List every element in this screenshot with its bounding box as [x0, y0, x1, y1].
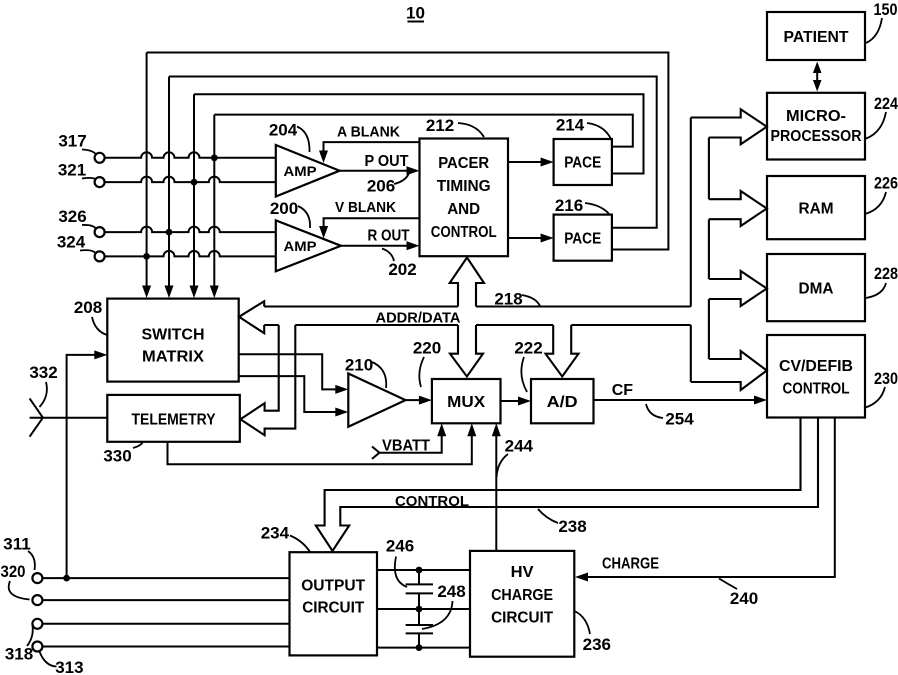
svg-text:150: 150 — [874, 0, 898, 19]
svg-text:321: 321 — [58, 161, 86, 180]
wire CF from A/D to CV/DEFIB control — [594, 382, 768, 405]
svg-text:MATRIX: MATRIX — [142, 349, 204, 366]
wire V BLANK from pacer to amp 200 — [319, 199, 419, 239]
wire pace214 return line upper (to electrode 317 column) — [214, 115, 633, 147]
pacer timing and control box 212 — [420, 139, 509, 257]
label 150 — [866, 0, 898, 43]
svg-text:218: 218 — [494, 290, 522, 309]
bus arrow into DMA — [709, 271, 767, 306]
A/D converter box 222 — [531, 379, 594, 423]
node dot electrode 321 column 3 — [191, 179, 198, 186]
wire HV electrode line 320 — [42, 599, 289, 601]
DMA box 228 — [767, 254, 865, 321]
wire output circuit to HV charge top rail — [377, 569, 470, 571]
svg-text:PACE: PACE — [564, 231, 601, 248]
bus branch arrow into telemetry — [240, 325, 295, 435]
svg-text:MICRO-: MICRO- — [786, 108, 846, 125]
wire pace216 return line upper (to electrode 326 column) — [169, 77, 657, 228]
label 202 — [382, 249, 417, 280]
wire electrode column 3 down to switch matrix — [190, 94, 199, 298]
node dot electrode 326 column 2 — [166, 229, 173, 236]
svg-text:332: 332 — [29, 363, 57, 382]
bus arrow into CV/DEFIB control — [691, 351, 767, 390]
svg-text:TIMING: TIMING — [437, 178, 491, 195]
net label ADDR/DATA — [376, 310, 461, 327]
bus branch arrow down into MUX — [450, 325, 483, 377]
terminal circle 320 — [32, 595, 42, 605]
op-amp sense amplifier 204 — [276, 145, 340, 197]
wire electrode column 4 down to switch matrix — [210, 115, 219, 298]
svg-text:AMP: AMP — [284, 163, 317, 179]
wire A BLANK from pacer to amp 204 — [319, 124, 420, 164]
label 240 — [719, 579, 758, 609]
wire patient-microprocessor double arrow — [813, 62, 822, 92]
label 228 — [866, 264, 898, 298]
svg-text:10: 10 — [406, 4, 425, 23]
wire pacer to pace 216 — [508, 234, 554, 243]
label 326 — [58, 207, 95, 228]
svg-text:200: 200 — [270, 199, 298, 218]
capacitor C248 — [406, 609, 433, 648]
label 317 — [58, 132, 95, 154]
bus right vertical rail inner — [708, 138, 710, 360]
wire R OUT from amp 200 to pacer — [341, 228, 420, 251]
node dot capacitor bottom — [416, 644, 423, 651]
label 208 — [74, 298, 107, 335]
pace box 216 — [554, 215, 612, 261]
bus ADDR/DATA top rail — [264, 305, 691, 307]
svg-text:206: 206 — [367, 177, 395, 196]
svg-text:222: 222 — [514, 339, 542, 358]
terminal circle 317 — [95, 153, 105, 163]
wire MUX to A/D — [501, 397, 532, 406]
wire electrode line 326 with hops — [105, 227, 276, 233]
net label CONTROL — [395, 493, 469, 510]
label 311 — [3, 535, 35, 571]
svg-text:236: 236 — [583, 635, 611, 654]
switch matrix box 208 — [107, 299, 238, 382]
svg-text:RAM: RAM — [799, 201, 834, 218]
wire amp 210 to MUX — [406, 396, 432, 405]
label 330 — [103, 442, 143, 466]
wire output circuit to HV charge middle rail — [377, 608, 470, 610]
label 212 — [426, 116, 484, 137]
node dot electrode 317 column 4 — [211, 154, 218, 161]
HV charge circuit box 236 — [470, 551, 574, 657]
label 200 — [270, 199, 310, 228]
label 204 — [269, 121, 310, 153]
svg-text:208: 208 — [74, 298, 102, 317]
svg-text:214: 214 — [556, 116, 585, 135]
label 236 — [575, 611, 611, 654]
svg-text:PROCESSOR: PROCESSOR — [771, 128, 862, 145]
svg-text:230: 230 — [874, 369, 898, 388]
svg-text:330: 330 — [103, 447, 131, 466]
terminal circle 324 — [95, 251, 105, 261]
wire electrode line 317 with hops — [105, 152, 276, 158]
svg-text:202: 202 — [388, 260, 416, 279]
bus ADDR/DATA arrowhead into switch matrix — [239, 301, 264, 333]
svg-text:OUTPUT: OUTPUT — [301, 578, 365, 595]
svg-text:A/D: A/D — [547, 394, 578, 411]
svg-text:AMP: AMP — [284, 238, 317, 254]
svg-text:CONTROL: CONTROL — [431, 224, 497, 241]
pace box 214 — [554, 139, 612, 185]
svg-text:226: 226 — [874, 174, 898, 193]
svg-text:240: 240 — [730, 589, 758, 608]
svg-text:R OUT: R OUT — [368, 228, 410, 245]
svg-text:313: 313 — [55, 658, 83, 675]
wire electrode column 1 down to switch matrix — [142, 53, 151, 299]
label 332 — [29, 363, 57, 407]
label 321 — [58, 161, 96, 180]
terminal circle 321 — [95, 177, 105, 187]
svg-text:CF: CF — [612, 382, 634, 399]
wire telemetry to MUX — [168, 423, 477, 464]
label 234 — [261, 524, 310, 553]
svg-text:248: 248 — [437, 582, 465, 601]
svg-text:PACER: PACER — [438, 155, 489, 172]
svg-text:PATIENT: PATIENT — [784, 29, 849, 46]
label 230 — [864, 369, 898, 408]
label 244 — [497, 437, 534, 478]
label 218 — [494, 290, 540, 309]
terminal circle 326 — [95, 227, 105, 237]
terminal circle 311 — [32, 573, 42, 583]
node dot capacitor middle — [416, 606, 423, 613]
patient box 150 — [767, 12, 865, 60]
bus branch arrow down into A/D — [546, 325, 579, 377]
svg-text:AND: AND — [447, 201, 480, 218]
svg-text:CIRCUIT: CIRCUIT — [491, 610, 553, 627]
label 320 — [1, 562, 30, 600]
svg-text:246: 246 — [386, 537, 414, 556]
svg-text:CV/DEFIB: CV/DEFIB — [779, 358, 853, 375]
svg-text:216: 216 — [555, 196, 583, 215]
svg-text:244: 244 — [505, 437, 534, 456]
node dot capacitor top — [416, 567, 423, 574]
capacitor C246 — [406, 570, 433, 609]
svg-text:TELEMETRY: TELEMETRY — [132, 412, 216, 429]
svg-text:SWITCH: SWITCH — [142, 327, 205, 344]
wire P OUT from amp 204 to pacer — [340, 153, 420, 175]
wire HV electrode line 318 — [42, 623, 289, 625]
label 222 — [514, 339, 542, 393]
terminal circle 318 — [32, 619, 42, 629]
wire HV electrode 320 up into switch matrix — [67, 350, 108, 578]
svg-text:324: 324 — [57, 233, 86, 252]
svg-text:228: 228 — [874, 264, 898, 283]
bus arrow into microprocessor — [691, 109, 767, 144]
wire HV electrode line 311 — [42, 577, 289, 579]
label 224 — [865, 94, 898, 139]
bus arrow into RAM — [709, 191, 767, 226]
label 248 — [422, 582, 466, 629]
label 254 — [646, 404, 694, 429]
label 324 — [57, 233, 96, 254]
svg-text:HV: HV — [511, 564, 534, 581]
svg-text:212: 212 — [426, 116, 454, 135]
svg-text:DMA: DMA — [799, 281, 834, 298]
svg-text:A BLANK: A BLANK — [337, 124, 400, 141]
bus branch arrow up into pacer — [450, 258, 484, 307]
svg-text:326: 326 — [58, 207, 86, 226]
wire CHARGE from CV/DEFIB to HV charge circuit — [575, 418, 835, 582]
svg-text:317: 317 — [58, 132, 86, 151]
wire pace216 return line lower (to electrode 324 column) — [147, 53, 669, 250]
CV/DEFIB control box 230 — [767, 335, 865, 418]
label 216 — [555, 196, 610, 215]
wire output circuit to HV charge bottom rail — [377, 647, 470, 649]
output circuit box 234 — [290, 552, 378, 655]
wire 244 from HV charge circuit up into MUX — [492, 423, 501, 551]
svg-text:CHARGE: CHARGE — [491, 587, 553, 604]
svg-text:210: 210 — [345, 356, 373, 375]
svg-text:320: 320 — [1, 562, 26, 581]
svg-text:PACE: PACE — [564, 155, 601, 172]
label 220 — [413, 339, 441, 388]
wire HV electrode line 313 — [42, 646, 289, 648]
bus CONTROL from CV/DEFIB to output circuit — [316, 418, 818, 552]
node dot electrode 324 column 1 — [143, 253, 150, 260]
wire switch matrix to amp 210 input 2 — [239, 376, 349, 416]
label 246 — [386, 537, 414, 588]
RAM box 226 — [767, 176, 865, 239]
label 210 — [345, 356, 386, 389]
svg-text:MUX: MUX — [447, 394, 485, 411]
terminal circle 313 — [32, 642, 42, 652]
op-amp buffer 210 — [348, 374, 405, 427]
bus ADDR/DATA bottom rail — [264, 324, 691, 326]
antenna 332 — [30, 398, 108, 436]
svg-text:254: 254 — [665, 410, 694, 429]
label 226 — [865, 174, 898, 215]
label 238 — [538, 509, 587, 536]
label 318 — [5, 626, 33, 664]
microprocessor box U224 — [767, 93, 865, 160]
svg-text:CONTROL: CONTROL — [395, 493, 469, 510]
svg-text:V BLANK: V BLANK — [335, 199, 396, 216]
svg-text:CHARGE: CHARGE — [602, 556, 659, 573]
label 214 — [556, 116, 611, 140]
telemetry box 330 — [107, 395, 240, 442]
label 206 — [367, 173, 409, 196]
label 313 — [40, 652, 84, 675]
wire electrode column 2 down to switch matrix — [165, 77, 174, 299]
svg-text:238: 238 — [558, 517, 586, 536]
svg-text:CONTROL: CONTROL — [783, 381, 850, 398]
svg-text:318: 318 — [5, 645, 33, 664]
MUX box 220 — [432, 379, 501, 423]
svg-text:311: 311 — [3, 535, 30, 554]
node dot 320 junction — [63, 575, 70, 582]
wire switch matrix to amp 210 input 1 — [239, 354, 349, 394]
wire electrode line 321 with hops — [105, 177, 276, 183]
svg-text:224: 224 — [874, 94, 898, 113]
svg-text:220: 220 — [413, 339, 441, 358]
svg-text:ADDR/DATA: ADDR/DATA — [376, 310, 461, 327]
svg-text:CIRCUIT: CIRCUIT — [302, 600, 364, 617]
svg-text:204: 204 — [269, 121, 298, 140]
bus right vertical rail outer — [690, 118, 692, 383]
svg-text:P OUT: P OUT — [365, 153, 409, 170]
figure number 10 — [406, 4, 425, 23]
op-amp sense amplifier 200 — [276, 220, 341, 271]
wire pacer to pace 214 — [508, 158, 554, 167]
wire VBATT into MUX — [372, 423, 446, 459]
wire electrode line 324 with hops — [105, 251, 276, 256]
wire pace214 return line lower (to electrode 321 column) — [194, 94, 644, 173]
svg-text:VBATT: VBATT — [382, 438, 430, 455]
svg-text:234: 234 — [261, 524, 290, 543]
